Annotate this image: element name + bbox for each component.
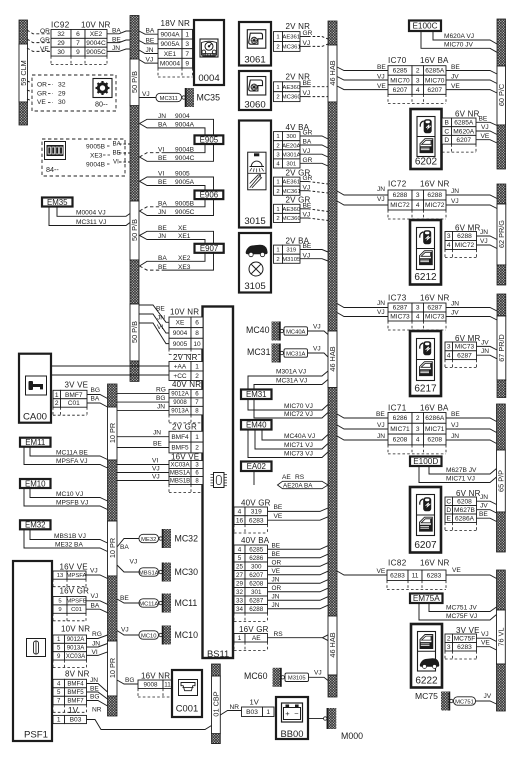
svg-text:MPSFB: MPSFB [66,599,86,605]
svg-text:VI: VI [158,146,164,153]
svg-text:9005A: 9005A [160,41,180,48]
svg-text:6283: 6283 [457,644,472,651]
svg-text:6208: 6208 [457,498,472,505]
wire AE361 GR dashed [300,36,308,38]
svg-text:4: 4 [416,314,420,321]
wire JN BMF4 [117,436,169,438]
splice MC11A / MC11 [139,599,159,607]
svg-text:4: 4 [416,202,420,209]
svg-text:MIC70: MIC70 [390,77,410,84]
wire MPSFA VJ [24,447,108,468]
svg-text:9005B: 9005B [86,143,106,150]
svg-text:9004A: 9004A [160,31,180,38]
wire IC92 GR [27,39,51,43]
svg-text:IC82: IC82 [388,559,407,568]
svg-text:MC75F VJ: MC75F VJ [446,613,477,620]
svg-text:6287: 6287 [457,352,472,359]
wire AE360 BE dashed [300,208,308,210]
unit EA02 [241,462,272,472]
wires 46HAB to IC70 [337,67,388,71]
wire MPSFB VJ [24,488,108,510]
svg-text:E907: E907 [200,244,218,253]
svg-text:VJ: VJ [303,90,311,97]
svg-text:8V NR: 8V NR [65,670,90,679]
svg-text:MC60: MC60 [244,671,268,681]
dashed unit 80 (heater control) [32,75,116,111]
svg-text:9004B: 9004B [175,146,195,153]
svg-text:B03: B03 [70,717,82,724]
svg-text:10V NR: 10V NR [61,625,90,634]
svg-text:VJ: VJ [303,184,311,191]
wire JN 9013A [117,410,169,412]
svg-text:MC40A VJ: MC40A VJ [284,433,315,440]
wire JN 9004 [140,119,214,135]
svg-text:10V NR: 10V NR [81,21,111,30]
svg-text:1: 1 [276,85,279,91]
wire IC92 OR [27,30,51,34]
svg-text:IC71: IC71 [388,404,407,413]
svg-text:VI: VI [113,158,119,165]
svg-text:1: 1 [276,248,279,254]
svg-text:VJ: VJ [377,309,385,316]
svg-text:+CC: +CC [173,373,186,380]
svg-text:VJ: VJ [451,422,459,429]
wire 40V BA row 6 OR [268,588,329,592]
unit EM35 [42,198,73,207]
svg-text:C01: C01 [68,400,80,407]
svg-text:9004: 9004 [175,113,190,120]
icon cluster [200,39,218,57]
svg-text:MC11: MC11 [175,598,198,608]
icon lighter [179,680,198,696]
svg-text:6288: 6288 [249,606,264,613]
svg-text:BE: BE [274,504,283,511]
svg-text:7: 7 [76,40,80,47]
svg-text:MPSFA VJ: MPSFA VJ [56,458,88,465]
svg-text:46 HAB: 46 HAB [328,346,337,371]
wire M3105 VJ [300,259,328,261]
svg-text:MBS1B: MBS1B [170,479,190,485]
wire BE XE [140,231,214,244]
unit C001 cigarette lighter [172,670,202,717]
svg-text:16: 16 [236,517,244,524]
svg-text:BE: BE [112,36,121,43]
svg-text:VE: VE [452,567,461,574]
wire 46HAB to IC82 VE [337,571,387,575]
svg-text:32: 32 [57,31,65,38]
wire CA00 +AA [51,365,169,367]
svg-text:VE: VE [274,513,283,520]
connector bar 65 P/P [497,404,506,450]
wire BB00 to M000 ground [308,718,324,720]
svg-text:6208: 6208 [393,437,408,444]
wire 9013A JN to bar [87,644,108,648]
wire 40V BA row 4 VE [268,571,329,575]
svg-text:MC30: MC30 [175,567,199,577]
svg-text:MC751: MC751 [455,699,474,705]
svg-text:IC70: IC70 [388,56,407,65]
svg-text:M3105: M3105 [282,257,301,263]
wire 40V BA row 2 BE [268,554,329,558]
svg-text:IC72: IC72 [388,180,407,189]
svg-text:2: 2 [447,635,451,642]
svg-text:3: 3 [185,41,189,48]
unit E907 [195,244,224,253]
wires 6207 to 65P/P [477,501,497,504]
svg-text:GR: GR [37,91,47,98]
svg-text:3V VE: 3V VE [65,381,89,390]
wire MIC70 VJ [248,399,328,410]
svg-text:MC311: MC311 [160,96,178,102]
svg-text:M301A: M301A [282,152,301,158]
svg-text:RG: RG [156,387,166,394]
svg-text:VJ: VJ [152,466,160,473]
svg-text:BMF5: BMF5 [67,689,84,696]
svg-text:JN: JN [451,188,459,195]
svg-text:6217: 6217 [414,384,437,395]
svg-text:E905: E905 [200,136,219,145]
svg-text:MIC73 VJ: MIC73 VJ [284,451,313,458]
connector bar 01 CBP [212,664,221,676]
svg-text:BE: BE [120,595,129,602]
svg-text:VJ: VJ [451,198,459,205]
svg-text:50 P/B: 50 P/B [130,71,139,93]
wire MC311 VJ [49,207,130,226]
svg-text:BG: BG [91,387,101,394]
wire BE 9005A [140,181,206,190]
svg-text:MC360: MC360 [282,95,302,101]
svg-text:VE: VE [377,83,386,90]
svg-text:BMF5: BMF5 [171,445,189,452]
splice ME32 / MC32 [139,534,159,542]
svg-text:AE361: AE361 [282,35,300,41]
svg-text:2: 2 [195,373,199,380]
wire BMF7 BG [87,395,108,399]
svg-text:VJ: VJ [313,346,321,353]
svg-text:JN: JN [377,186,385,193]
wire 319 BE [300,250,328,253]
svg-text:VI: VI [157,324,163,331]
svg-text:VJ: VJ [313,324,321,331]
wires 6217 to 67PR/D [477,346,498,350]
svg-text:JN: JN [480,494,488,501]
wires 6212 to 62PR/G [477,236,498,240]
svg-text:JN: JN [146,47,154,54]
svg-text:IC73: IC73 [388,294,407,303]
svg-text:10 PR: 10 PR [108,538,117,558]
svg-text:6207: 6207 [249,572,264,579]
svg-text:MIC72: MIC72 [425,202,445,209]
svg-text:300: 300 [251,563,262,570]
svg-text:4: 4 [416,87,420,94]
svg-text:MC361: MC361 [282,189,301,195]
svg-text:JV: JV [451,310,459,317]
wire bar to XE BE [139,305,169,322]
svg-text:1: 1 [276,35,279,41]
svg-text:9: 9 [76,49,80,56]
svg-text:VI: VI [92,649,98,656]
wire VJ MBS1A [117,472,169,474]
wires IC72 to 62PR/G [446,195,497,199]
svg-text:3: 3 [447,344,451,351]
svg-text:M627B: M627B [454,507,475,514]
svg-text:MIC73: MIC73 [455,344,475,351]
svg-text:MC35: MC35 [197,93,221,103]
svg-text:6283: 6283 [390,572,405,579]
svg-text:MC31: MC31 [247,347,271,357]
unit EM10 [20,479,51,488]
svg-text:1: 1 [55,392,59,399]
wires bar to 18V NR [139,31,158,34]
svg-text:MC75: MC75 [415,691,438,701]
unit BB00 battery [276,697,308,739]
svg-text:BMF7: BMF7 [65,392,83,399]
svg-text:4: 4 [238,509,242,516]
connector bar 76 VL [497,570,506,610]
svg-text:6288: 6288 [393,192,408,199]
wire IC92 BE [107,40,130,43]
svg-text:2: 2 [276,44,279,50]
wire BA 9004A [140,124,206,136]
svg-text:29: 29 [57,40,65,47]
svg-text:9005A: 9005A [175,179,195,186]
svg-text:1: 1 [276,207,279,213]
splice MBS1A / MC30 [139,568,159,576]
svg-text:0004: 0004 [198,73,220,84]
wire MC10 VJ [30,488,108,501]
svg-text:MC10 VJ: MC10 VJ [56,491,83,498]
svg-text:JN: JN [158,233,166,240]
wires 6202 to 60P/C [476,122,497,125]
svg-text:JN: JN [158,209,166,216]
svg-text:+: + [285,709,290,718]
svg-text:GR: GR [303,157,313,164]
icon car [246,245,268,255]
svg-text:JN: JN [451,433,459,440]
svg-text:MPSFB VJ: MPSFB VJ [56,500,88,507]
wire MIC71 VJ [255,430,328,450]
svg-text:XE3: XE3 [178,264,191,271]
svg-text:M620A VJ: M620A VJ [444,33,474,40]
svg-text:9008: 9008 [143,681,158,688]
svg-text:MIC70 JV: MIC70 JV [444,41,474,48]
svg-text:XE: XE [176,320,185,327]
icon lamp crossed [249,262,263,276]
svg-text:BE: BE [272,551,281,558]
svg-text:1: 1 [238,635,242,642]
svg-text:JN: JN [272,602,280,609]
unit EM40 [241,420,272,430]
wire MC11A BE [30,447,108,460]
svg-text:D: D [446,507,451,514]
svg-text:BE: BE [158,179,167,186]
svg-text:MIC72: MIC72 [455,242,475,249]
unit 6217 window switch [410,331,441,396]
wire C01 BA to bar [86,609,108,613]
svg-text:E100C: E100C [412,22,437,31]
svg-text:16V VE: 16V VE [171,452,199,461]
svg-text:1: 1 [266,709,270,716]
svg-text:PSF1: PSF1 [24,730,48,741]
unit E100C [409,21,441,32]
svg-text:NR: NR [92,707,102,714]
svg-text:8: 8 [195,330,199,337]
unit BS11 [203,307,234,659]
svg-text:EM75A: EM75A [413,594,440,603]
wire JN XE1 [140,235,206,243]
svg-text:AE20A BA: AE20A BA [283,483,313,490]
wire IC92 JN [107,49,130,51]
svg-text:1V: 1V [68,705,79,715]
svg-text:301: 301 [286,161,296,167]
svg-text:M000: M000 [341,731,363,741]
unit EM31 [241,390,272,400]
svg-text:16V GR: 16V GR [239,625,269,634]
svg-text:319: 319 [251,509,262,516]
wire MPSFA VJ to bar [86,575,108,579]
wire AE360 BE dashed [300,86,308,88]
svg-text:JN: JN [451,301,459,308]
svg-text:6287: 6287 [249,597,264,604]
svg-text:XE1: XE1 [164,51,177,58]
wire 40V BA row 8 JN [268,605,329,609]
svg-text:2: 2 [276,95,279,101]
svg-text:BE: BE [377,64,386,71]
svg-text:1V: 1V [250,698,260,707]
connector bar 46 HAB [328,21,337,45]
svg-text:9012A: 9012A [171,391,190,398]
svg-text:3: 3 [416,192,420,199]
svg-text:JN: JN [157,404,165,411]
svg-text:VJ: VJ [142,91,150,98]
wire BE XE3 [140,266,163,270]
svg-text:XE: XE [178,225,187,232]
svg-text:2: 2 [276,257,279,263]
svg-text:M3105: M3105 [288,676,306,682]
svg-text:6288: 6288 [427,192,442,199]
svg-text:9004: 9004 [173,330,188,337]
svg-text:MC40: MC40 [246,325,270,335]
wire MC361 VJ dashed [300,190,308,192]
svg-text:32: 32 [58,82,66,89]
icon car 6222 [420,658,439,667]
svg-text:−: − [294,709,299,718]
wire bar to 9005 VI [139,323,169,344]
svg-text:34: 34 [236,606,244,613]
wire 84 to bar dashed [119,143,130,145]
wire AE RS [323,635,329,638]
unit 6212 window switch [410,220,441,285]
connector bar 60 P/C [497,19,506,66]
svg-text:4: 4 [447,242,451,249]
svg-text:16V NR: 16V NR [420,180,450,189]
svg-text:50 P/B: 50 P/B [130,321,139,343]
wire IC82 to 76VL VE [446,575,497,579]
unit 3105 [239,233,271,293]
wire MC75F VJ [419,603,497,620]
wire bar to MC11A BE [117,599,139,603]
svg-text:6285A: 6285A [454,120,474,127]
svg-text:JV: JV [484,693,492,700]
wires IC70 to 60P/C [446,71,497,75]
svg-text:AE361: AE361 [282,180,300,186]
svg-text:6285A: 6285A [425,68,445,75]
svg-text:AE360: AE360 [282,207,300,213]
wire M627B JV [429,466,497,474]
wire MPSFB VJ to bar [86,601,108,605]
svg-text:2V GR: 2V GR [172,423,197,432]
unit E906 [195,191,224,200]
svg-text:EM40: EM40 [246,421,267,430]
wire 40V BA row 5 JN [268,580,329,584]
svg-text:JN: JN [377,433,385,440]
svg-text:10V NR: 10V NR [170,308,199,317]
svg-text:BA: BA [146,28,155,35]
wire JN 9005C [140,199,214,215]
svg-text:60 P/C: 60 P/C [497,84,506,106]
svg-text:59 CLM: 59 CLM [19,60,28,86]
unit CA00 [19,354,51,423]
svg-text:NR: NR [230,704,240,711]
svg-text:2: 2 [195,445,199,452]
svg-text:VJ: VJ [481,631,489,638]
wire VI XC03A [117,464,169,466]
wire 40V BA row 7 JN [268,597,329,601]
svg-text:MC11A: MC11A [139,601,158,607]
svg-text:6283: 6283 [249,517,264,524]
svg-text:6208: 6208 [249,580,264,587]
svg-text:11: 11 [412,572,419,579]
svg-text:VJ: VJ [146,57,154,64]
svg-text:01 CBP: 01 CBP [212,691,221,716]
wires 46HAB to IC71 [337,414,388,418]
wire XC03A VI to bar [87,652,108,656]
wire MC361 VJ dashed [300,45,308,47]
svg-text:AE20A: AE20A [282,143,300,149]
wire 300 GR [300,136,328,139]
icon chip BS11 [214,473,225,488]
svg-text:6288: 6288 [457,233,472,240]
connector cell B03 1 [242,707,263,717]
svg-text:BA: BA [91,603,100,610]
unit EM32 [20,520,51,529]
wire MC360 VJ dashed [300,217,308,219]
svg-text:30: 30 [58,99,66,106]
svg-text:E100D: E100D [413,457,438,466]
svg-text:6V NR: 6V NR [455,110,480,119]
svg-text:JN: JN [92,641,100,648]
svg-text:9008: 9008 [173,399,187,406]
svg-text:IC92: IC92 [51,21,70,30]
unit EM11 [20,438,51,447]
svg-text:MBS1A: MBS1A [170,471,190,477]
svg-text:JN: JN [112,45,120,52]
icon display 8888 [45,142,66,160]
svg-text:25: 25 [236,563,244,570]
wire M0004 VJ [57,207,130,217]
svg-text:1: 1 [57,717,61,724]
svg-text:1: 1 [185,31,189,38]
wire AE20A BA hexagon [253,471,255,485]
wire MC751 JV [429,603,497,612]
svg-text:2: 2 [276,189,279,195]
svg-text:BA: BA [158,122,167,129]
svg-text:40V NR: 40V NR [172,380,201,389]
wire AE20A BA [300,145,328,148]
wire 6283 VE [268,517,329,520]
svg-text:33: 33 [236,597,244,604]
svg-text:MBS1A: MBS1A [139,570,159,576]
